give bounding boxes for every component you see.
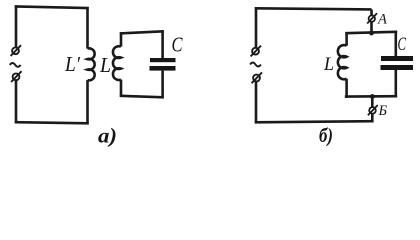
wire: circuit b tank right upper (394, 31, 397, 56)
AC source symbol (tilde, circuit a) (10, 63, 21, 67)
wire: circuit b tank right lower (394, 70, 397, 98)
capacitor C (circuit a) top plate (150, 58, 176, 62)
svg-text:а): а) (98, 124, 117, 148)
wire: circuit b left upper (255, 7, 258, 47)
wire: circuit a tank-loop bottom (120, 96, 164, 98)
wire: circuit b left lower (255, 82, 258, 124)
terminal X1 (top clamp of AC source, circuit a) (11, 45, 21, 56)
wire: circuit a source-loop right upper (86, 7, 89, 49)
svg-text:Б: Б (378, 103, 388, 119)
wire: circuit a tank-loop left upper (120, 32, 123, 46)
wire: circuit a tank-loop right upper (161, 30, 164, 58)
svg-text:C: C (172, 33, 184, 57)
junction dot (tank bottom, circuit b) (370, 94, 375, 99)
svg-text:б): б) (319, 125, 333, 147)
capacitor C (circuit b) bottom plate (381, 65, 414, 70)
inductor L' (primary coil, circuit a) (88, 48, 95, 80)
wire: circuit b bottom (255, 121, 374, 122)
inductor L (circuit b) (338, 45, 347, 79)
inductor L (secondary coil, circuit a) (113, 46, 121, 80)
wire: circuit a source-loop top (15, 6, 89, 8)
terminal X3 (top clamp of AC source, circuit b) (251, 46, 261, 57)
wire: circuit b tank left upper (345, 32, 348, 46)
wire: circuit a tank-loop top (120, 31, 164, 33)
wire: circuit a tank-loop left lower (120, 80, 123, 97)
wire: circuit b tank bottom (345, 95, 397, 98)
wire: circuit a source-loop left lower (15, 81, 18, 124)
wire: circuit a tank-loop right lower (161, 71, 164, 99)
wire: node A drop from top wire (370, 9, 373, 15)
terminal X2 (bottom clamp of AC source, circuit a) (11, 71, 21, 82)
svg-text:L: L (323, 54, 334, 75)
wire: tank bottom to node B (371, 97, 374, 108)
node B terminal (circle with slash) (368, 105, 378, 115)
wire: node A to tank top (370, 22, 373, 34)
svg-text:А: А (377, 12, 387, 28)
svg-text:L′: L′ (64, 52, 80, 76)
capacitor C (circuit a) bottom plate (150, 66, 176, 71)
wire: circuit a source-loop bottom (15, 122, 89, 123)
junction dot (tank top, circuit b) (369, 31, 374, 36)
capacitor C (circuit b) top plate (381, 56, 413, 61)
wire: circuit a source-loop right lower (86, 80, 89, 124)
wire: circuit b top (255, 8, 372, 9)
node A terminal (circle with slash) (367, 13, 377, 23)
svg-text:C: C (398, 34, 407, 55)
svg-text:L: L (99, 53, 111, 77)
wire: node B to bottom wire (371, 114, 374, 123)
wire: circuit b tank top (345, 32, 397, 33)
wire: circuit b tank left lower (345, 79, 348, 98)
wire: circuit a source-loop left upper (15, 5, 18, 47)
AC source symbol (tilde, circuit b) (250, 63, 261, 67)
terminal X4 (bottom clamp of AC source, circuit b) (252, 72, 262, 83)
